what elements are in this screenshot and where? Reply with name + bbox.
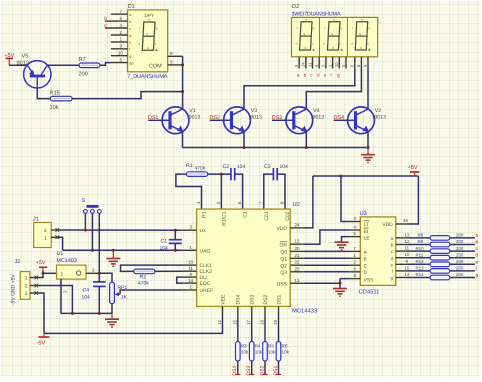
wire junction down to U2 pin5 — [220, 174, 222, 209]
svg-text:3: 3 — [25, 291, 28, 297]
svg-text:R3: R3 — [241, 344, 247, 349]
svg-text:CLK1: CLK1 — [200, 263, 213, 269]
wires below resistors — [238, 361, 279, 375]
svg-text:200: 200 — [456, 252, 464, 257]
resistor R10 200 — [430, 249, 450, 254]
200 value labels — [456, 233, 464, 278]
wire V4 emitter down — [305, 132, 307, 148]
svg-text:104: 104 — [280, 164, 289, 170]
svg-text:10k: 10k — [282, 350, 290, 355]
wires U2 DS pins down to resistors — [238, 318, 279, 342]
wire U3 LE to ground — [342, 237, 349, 242]
transistor V4 9013 — [286, 107, 313, 134]
wire D2 digit3 common to V2 collector — [367, 69, 369, 110]
svg-text:Ux: Ux — [200, 228, 207, 234]
svg-text:11: 11 — [188, 266, 193, 271]
svg-text:V4: V4 — [313, 108, 319, 114]
svg-text:J2: J2 — [15, 259, 21, 265]
junction — [98, 272, 101, 275]
connector J2 — [15, 259, 39, 299]
svg-text:Q0: Q0 — [280, 250, 287, 256]
C1 stems — [174, 230, 176, 250]
svg-text:470k: 470k — [195, 166, 206, 172]
svg-text:V2: V2 — [375, 108, 381, 114]
wire switch pole1 down to Ux net — [84, 213, 86, 230]
svg-text:R8: R8 — [418, 233, 424, 238]
wire bus Q3 to U3 D — [304, 271, 349, 273]
svg-text:-5V GND +5V: -5V GND +5V — [11, 274, 17, 305]
svg-text:6: 6 — [119, 16, 122, 21]
svg-text:R5: R5 — [268, 344, 274, 349]
wire R15 to D1 COM / V1 collector — [72, 92, 183, 99]
wire bus Q0 to U3 A — [304, 250, 349, 252]
resistor R6 10k — [276, 342, 289, 362]
svg-text:CD4511: CD4511 — [359, 289, 380, 296]
capacitor C4 104 — [82, 282, 106, 301]
svg-text:a: a — [476, 234, 479, 239]
svg-text:b: b — [129, 20, 131, 24]
U3 right pin numbers — [405, 232, 410, 277]
svg-text:14: 14 — [405, 272, 410, 277]
wire to ground stem — [367, 148, 369, 155]
transistor V3 9013 — [224, 107, 251, 134]
wire R1 right to C2 — [208, 173, 231, 175]
svg-text:LT: LT — [364, 222, 369, 228]
ground (emitter rail) — [361, 155, 375, 163]
svg-text:dp: dp — [129, 61, 133, 65]
wire RP1 wiper to UREF — [120, 290, 183, 294]
svg-text:7_DUANSHUMA: 7_DUANSHUMA — [127, 74, 167, 80]
D2 segment net labels a-g — [297, 72, 340, 77]
svg-text:104: 104 — [237, 164, 246, 170]
svg-text:10k: 10k — [241, 350, 249, 355]
svg-text:d: d — [476, 253, 479, 259]
svg-text:1: 1 — [25, 276, 28, 282]
+5V power symbol right — [408, 165, 420, 176]
D1 left pins — [105, 14, 128, 62]
transistor V2 9013 — [348, 107, 375, 134]
svg-text:R6: R6 — [282, 344, 288, 349]
svg-text:U1: U1 — [57, 251, 64, 257]
net labels DS4-DS1 (rotated) — [232, 366, 279, 376]
wire V1 emitter down — [182, 132, 184, 148]
junction — [220, 173, 223, 176]
svg-text:9013: 9013 — [189, 114, 201, 120]
ground (UAG) — [112, 250, 114, 258]
svg-text:V1: V1 — [189, 108, 195, 114]
svg-text:4: 4 — [119, 23, 122, 28]
svg-text:R13: R13 — [416, 266, 425, 271]
svg-text:200: 200 — [456, 239, 464, 244]
svg-text:D1: D1 — [128, 4, 135, 10]
svg-text:OR: OR — [280, 242, 288, 248]
U2 right internal labels — [276, 226, 287, 288]
svg-text:Q2: Q2 — [280, 263, 287, 269]
svg-text:-5V: -5V — [37, 341, 46, 347]
svg-text:e: e — [476, 260, 479, 265]
svg-text:U3: U3 — [360, 210, 367, 217]
svg-text:C1: C1 — [161, 239, 168, 245]
svg-text:g: g — [476, 274, 479, 279]
resistor R1 470k — [186, 163, 208, 176]
wire D2 digit1 common to V3 collector — [244, 69, 355, 110]
svg-text:J1: J1 — [33, 217, 39, 223]
svg-text:470k: 470k — [138, 280, 149, 286]
wire J1 pin1 to UAG net — [58, 237, 63, 250]
svg-text:b: b — [391, 243, 394, 248]
wire V3 emitter down — [243, 132, 245, 148]
svg-text:15: 15 — [405, 265, 410, 270]
emitter rail wire — [183, 147, 369, 149]
svg-text:c: c — [104, 23, 107, 29]
svg-text:C4: C4 — [83, 288, 90, 294]
resistor R12 200 — [430, 262, 450, 267]
wire V1 base — [148, 119, 162, 121]
svg-text:VDD: VDD — [382, 222, 393, 228]
resistor R9 200 — [430, 242, 450, 247]
svg-text:e: e — [324, 72, 327, 77]
svg-text:Q1: Q1 — [280, 257, 287, 263]
wires U3 outputs to resistors — [408, 238, 430, 278]
svg-text:23: 23 — [295, 266, 300, 271]
D1 inside pin letters — [129, 13, 133, 65]
resistor R13 200 — [430, 269, 450, 274]
junction — [339, 282, 342, 285]
wire V4 base — [272, 119, 286, 121]
wire UAG net — [63, 249, 183, 251]
svg-text:11: 11 — [307, 62, 312, 67]
wire +5V to V5 emitter — [9, 64, 27, 66]
svg-text:14: 14 — [188, 278, 193, 283]
svg-text:e: e — [129, 41, 131, 45]
U3 internal labels — [364, 222, 394, 284]
wire J2 pin1 to +5V and U1 — [38, 271, 43, 278]
svg-text:200: 200 — [456, 233, 464, 238]
ground rail bottom-left — [61, 312, 112, 314]
wire switch pole3 down to U1 output — [98, 213, 100, 273]
wire V3 base — [210, 119, 224, 121]
svg-text:b: b — [304, 72, 307, 77]
svg-text:18: 18 — [260, 320, 265, 325]
svg-text:U2: U2 — [293, 201, 300, 208]
D1 right pins 8,3 — [168, 51, 183, 65]
svg-text:17: 17 — [246, 320, 251, 325]
svg-text:15: 15 — [295, 239, 300, 244]
wire bus Q2 to U3 C — [304, 264, 349, 266]
svg-text:COM: COM — [149, 64, 162, 70]
junction — [340, 175, 343, 178]
svg-text:200: 200 — [456, 266, 464, 271]
svg-text:R14: R14 — [416, 272, 425, 277]
svg-text:12: 12 — [405, 239, 410, 244]
ground (LE) — [335, 242, 349, 250]
transistor V5 (PNP 9012) — [17, 54, 52, 89]
svg-text:USS: USS — [277, 282, 288, 288]
svg-text:R11: R11 — [416, 252, 424, 257]
svg-text:5: 5 — [119, 57, 122, 62]
svg-text:10: 10 — [188, 260, 193, 265]
svg-text:VSS: VSS — [364, 277, 375, 283]
svg-text:24: 24 — [295, 222, 300, 227]
wire J2 pin2 to gnd rail — [38, 286, 72, 314]
wire J1 pin2 to U2 Ux — [58, 229, 183, 231]
svg-text:R1: R1 — [186, 163, 193, 169]
U2 left pin stubs — [183, 230, 197, 290]
OR overline — [280, 241, 287, 243]
junction — [181, 63, 184, 66]
wire D1 COM elbow down to V1 collector — [182, 56, 184, 109]
svg-text:b: b — [476, 240, 479, 246]
svg-text:DS4: DS4 — [236, 295, 242, 305]
wire U1 out to RP1 top — [99, 273, 112, 282]
svg-text:R10: R10 — [416, 246, 425, 251]
svg-text:VEE: VEE — [220, 294, 226, 305]
power -5V symbol — [37, 333, 50, 346]
svg-text:1: 1 — [119, 37, 122, 42]
wire C3 right to U2 pin8 — [277, 174, 285, 209]
resistor R7 200 — [79, 57, 101, 78]
svg-text:7: 7 — [119, 9, 122, 14]
U3 left pin stubs — [349, 222, 360, 279]
junction — [174, 249, 177, 252]
svg-text:22: 22 — [295, 260, 300, 265]
junction — [98, 312, 101, 315]
svg-text:16: 16 — [232, 320, 237, 325]
switch S — [82, 198, 102, 213]
junction — [305, 146, 308, 149]
U1 ground pin 3 down — [60, 279, 62, 313]
svg-text:D2: D2 — [292, 3, 299, 10]
op-amp/ADC U2 MC14433 — [197, 201, 318, 315]
junction — [84, 229, 87, 232]
junction — [243, 146, 246, 149]
svg-text:C2: C2 — [223, 164, 230, 170]
wire U2 USS to ground / U3 VSS — [304, 279, 349, 289]
connector J1 — [33, 217, 59, 248]
wire R1 left to U2 pin4 — [176, 174, 202, 209]
wires resistors to net stubs — [450, 238, 475, 278]
U2 top internal labels — [202, 211, 292, 225]
svg-text:16: 16 — [403, 218, 408, 223]
svg-text:2: 2 — [44, 228, 47, 234]
wire V2 emitter down — [367, 132, 369, 148]
red end marks — [235, 374, 281, 376]
junction — [42, 272, 45, 275]
svg-text:R9: R9 — [418, 239, 424, 244]
display D2 3WEI7DUANSHUMA — [292, 3, 378, 57]
U2 bottom internal labels — [220, 294, 282, 305]
net labels a-g right — [476, 234, 479, 279]
svg-text:d: d — [129, 34, 131, 38]
wire R2 to CLK2 — [155, 270, 183, 272]
svg-text:g: g — [129, 55, 131, 59]
svg-text:e: e — [391, 262, 394, 267]
svg-text:g: g — [391, 276, 394, 281]
junction — [367, 146, 370, 149]
wire U2 OR pin15 to U3 BI — [304, 230, 349, 244]
svg-text:2: 2 — [25, 284, 28, 290]
svg-text:104: 104 — [82, 295, 91, 301]
U2 right pin stubs — [290, 228, 304, 283]
svg-text:1: 1 — [61, 272, 64, 278]
svg-text:9: 9 — [119, 44, 122, 49]
svg-text:+5V: +5V — [36, 260, 46, 266]
transistor V1 9013 — [162, 107, 189, 134]
C4 stems — [98, 273, 100, 313]
svg-text:3: 3 — [170, 59, 173, 64]
wire RP1 bottom to rail — [111, 304, 113, 314]
svg-text:14: 14 — [301, 62, 306, 67]
ground (USS/VSS) — [333, 289, 347, 297]
svg-text:LE: LE — [364, 236, 371, 242]
svg-text:13: 13 — [405, 232, 410, 237]
wire VEE to -5V rail — [44, 318, 223, 333]
svg-text:C: C — [364, 264, 368, 270]
svg-text:EOC: EOC — [200, 281, 211, 287]
svg-text:VDD: VDD — [276, 226, 287, 232]
svg-text:10: 10 — [118, 51, 124, 56]
wire +5V to U3 LT — [341, 176, 349, 222]
svg-text:20: 20 — [295, 246, 300, 251]
svg-text:9013: 9013 — [374, 114, 386, 120]
svg-text:C3: C3 — [264, 164, 271, 170]
svg-text:S: S — [82, 198, 86, 204]
junction — [174, 229, 177, 232]
svg-text:d: d — [391, 256, 394, 261]
wire switch pole2 down to UAG net — [91, 213, 93, 250]
svg-text:10k: 10k — [255, 350, 263, 355]
junction — [112, 249, 115, 252]
D2 common pins — [355, 57, 368, 69]
svg-text:12: 12 — [217, 320, 222, 325]
wire D2 digit2 common to V4 collector — [306, 69, 361, 110]
wire C2 right to U2 pin6 — [235, 174, 243, 209]
U3 internal segment letters — [391, 236, 394, 281]
svg-text:200: 200 — [456, 259, 464, 264]
D1 pin numbers — [118, 9, 124, 62]
svg-text:C02: C02 — [285, 211, 291, 220]
svg-text:104: 104 — [160, 245, 169, 251]
ground (rail) — [111, 313, 113, 319]
wire U2 pin7 up to C3 — [264, 174, 273, 209]
svg-text:R7: R7 — [79, 57, 86, 63]
svg-text:V3: V3 — [251, 108, 257, 114]
svg-text:Q3: Q3 — [280, 270, 287, 276]
U3 left pin numbers — [354, 216, 357, 278]
U2 bottom pin numbers — [217, 320, 278, 325]
junction — [181, 90, 184, 93]
wire bus Q1 to U3 B — [304, 257, 349, 259]
resistor R8 200 — [430, 236, 450, 241]
D2 segment pins — [299, 57, 346, 69]
svg-text:C1: C1 — [243, 211, 249, 218]
voltage reference U1 MC1403 — [57, 251, 87, 279]
U2 left internal labels — [200, 228, 214, 294]
svg-text:8: 8 — [170, 51, 173, 56]
capacitor C2 104 — [223, 164, 246, 181]
svg-text:R4: R4 — [255, 344, 261, 349]
svg-text:c: c — [129, 27, 131, 31]
svg-text:R1: R1 — [202, 211, 208, 218]
resistor R15 10k — [50, 91, 73, 112]
capacitor C1 104 — [160, 239, 182, 252]
wire to U1 input — [43, 272, 57, 274]
svg-text:2: 2 — [119, 30, 122, 35]
resistor R2 470k — [134, 269, 155, 286]
U2 left pin numbers — [188, 225, 193, 290]
resistor R5 10k — [263, 342, 276, 362]
power +5V top-left — [4, 53, 14, 65]
svg-text:a: a — [391, 236, 394, 241]
svg-text:21: 21 — [295, 253, 300, 258]
display D1 7_DUANSHUMA — [127, 4, 167, 80]
svg-text:MC14433: MC14433 — [292, 308, 317, 315]
U2 top pin numbers — [196, 201, 285, 204]
svg-text:V5: V5 — [22, 54, 29, 60]
wire V5 base down — [37, 88, 50, 99]
svg-text:9013: 9013 — [250, 114, 262, 120]
wire CLK1 to R2 — [121, 265, 183, 271]
wire +5V to U2 VDD — [304, 176, 313, 228]
wire J2 pin3 to -5V rail — [38, 293, 44, 333]
svg-text:11: 11 — [405, 246, 410, 251]
LT/BI overlines — [364, 220, 370, 222]
svg-text:10: 10 — [334, 62, 339, 67]
resistor R4 10k — [249, 342, 262, 362]
svg-text:200: 200 — [456, 272, 464, 277]
svg-text:UREF: UREF — [200, 288, 214, 294]
wire DU-EOC loop — [177, 277, 183, 283]
capacitor C3 104 — [264, 164, 288, 181]
U1 output stub — [86, 272, 99, 274]
svg-text:D: D — [364, 270, 368, 276]
svg-text:UAG: UAG — [200, 248, 211, 254]
svg-text:200: 200 — [456, 246, 464, 251]
wire R7 to D1 pin5 — [100, 63, 111, 66]
svg-text:200: 200 — [79, 72, 88, 78]
junction — [91, 249, 94, 252]
U2 bottom pin stubs — [223, 306, 279, 318]
svg-text:1K: 1K — [121, 295, 128, 301]
potentiometer RP1 1K — [110, 282, 128, 303]
svg-text:10: 10 — [405, 252, 410, 257]
svg-text:13: 13 — [295, 278, 300, 283]
svg-text:b: b — [104, 16, 107, 22]
wire +5V rail — [313, 175, 419, 177]
svg-text:d: d — [317, 72, 320, 77]
svg-text:DS2: DS2 — [263, 295, 269, 305]
svg-text:DS3: DS3 — [250, 295, 256, 305]
U2 right pin numbers — [295, 222, 300, 282]
resistor R11 200 — [430, 255, 450, 260]
svg-text:R15: R15 — [50, 91, 60, 97]
wire V2 base — [334, 119, 348, 121]
svg-text:MC1403: MC1403 — [57, 258, 77, 264]
decoder U3 CD4511 — [359, 210, 396, 296]
svg-text:10k: 10k — [268, 350, 276, 355]
svg-text:BI: BI — [364, 229, 369, 235]
svg-text:+5V: +5V — [408, 165, 418, 171]
resistor R3 10k — [236, 342, 249, 362]
svg-text:1: 1 — [44, 236, 47, 242]
junction — [71, 312, 74, 315]
wire +5V to U3 VDD pin16 — [407, 176, 418, 224]
svg-text:19: 19 — [273, 320, 278, 325]
D2 pin numbers (rotated) — [294, 62, 346, 67]
wire V5 collector to R7 — [47, 64, 79, 66]
svg-text:9013: 9013 — [313, 114, 325, 120]
svg-text:C01: C01 — [264, 211, 270, 220]
